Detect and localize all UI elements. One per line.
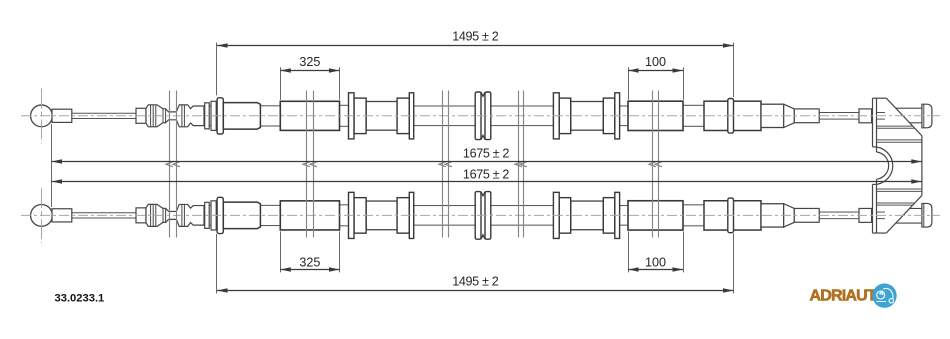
break line pair 2 [313, 91, 315, 238]
adjuster flange F1 [205, 103, 210, 129]
extension line 1495 top left [216, 43, 218, 96]
bracket upper shelf line 1 [877, 125, 913, 127]
pulley bottom groove notch [481, 135, 485, 139]
extension line 325 top left [280, 67, 282, 99]
ADRIAUTO logo blue disc [872, 283, 896, 307]
dimension line 100 bottom [628, 269, 683, 271]
dimension line 100 top [628, 70, 683, 72]
ball end fitting [31, 105, 53, 127]
svg-text:1495 ± 2: 1495 ± 2 [452, 274, 498, 288]
rod stub through bracket lower line [877, 118, 885, 120]
tube between sleeve S3 and sleeve S4 [683, 105, 704, 126]
svg-text:1675 ± 2: 1675 ± 2 [463, 146, 509, 160]
svg-text:ADRIAUT: ADRIAUT [810, 288, 877, 305]
wire inner cable upper line [72, 112, 136, 114]
bracket plate left inner edge (upper) [876, 98, 878, 152]
bracket lower half (mirrored) [873, 166, 932, 233]
spool P1 middle tube [366, 102, 397, 131]
dimension line 1675 first [52, 161, 922, 163]
rod stub through bracket upper line [877, 112, 885, 114]
break zigzag mark [515, 162, 522, 167]
bottom ball vertical centerline [41, 188, 43, 243]
break line pair 5 [652, 91, 654, 238]
boot ridge [181, 105, 183, 127]
tube between sleeve S1 and sleeve S2 [260, 106, 280, 126]
dimension line 1495 top [217, 45, 734, 47]
boot ferrule [136, 108, 146, 123]
extension line 1495 bottom left [216, 234, 218, 294]
break zigzag mark [310, 162, 317, 167]
cone tip cylinder [794, 109, 819, 123]
break zigzag mark [445, 162, 452, 167]
boot step [162, 109, 164, 123]
boot ridge [150, 105, 152, 127]
sleeve S2 (325 span) [280, 101, 339, 130]
svg-text:325: 325 [299, 55, 320, 69]
bracket hook notch outer arc [873, 147, 893, 185]
svg-text:100: 100 [645, 256, 666, 270]
bottom cable centerline [21, 214, 940, 216]
break line pair 4 [518, 91, 520, 238]
extension line 100 bottom right [683, 231, 685, 272]
dimension line 325 top [280, 70, 339, 72]
rubber bellows boot [146, 105, 204, 127]
spool P1 left flange [349, 93, 355, 139]
break line pair 3 [448, 91, 450, 238]
bottom cable assembly (mirror copy) [31, 192, 885, 240]
svg-text:33.0233.1: 33.0233.1 [55, 292, 105, 304]
extension line 100 top right [683, 67, 685, 99]
sleeve S3 (100 span) [628, 101, 683, 130]
boot ridge [183, 105, 185, 127]
bracket right edge (upper half) [921, 136, 923, 166]
pulley left flange [475, 92, 481, 140]
wire inner cable lower line [72, 118, 136, 120]
break zigzag mark [173, 162, 180, 167]
break line pair 2 [306, 91, 308, 238]
break zigzag mark [655, 162, 662, 167]
top stud shaft upper line [896, 107, 922, 109]
spool P1 right flange [409, 93, 413, 139]
break zigzag mark [520, 162, 527, 167]
dimension line 1675 second [52, 181, 922, 183]
ball neck cylinder [52, 109, 72, 122]
adjuster flange F2 [211, 101, 216, 130]
sleeve S1 [223, 103, 260, 130]
svg-text:100: 100 [645, 55, 666, 69]
boot ridge [155, 105, 157, 127]
thin rod to bracket fitting [819, 113, 859, 120]
bracket upper shelf line 2 [877, 127, 915, 129]
extension line 100 top left [628, 67, 630, 99]
pulley top groove notch [481, 92, 485, 96]
svg-text:1495 ± 2: 1495 ± 2 [452, 30, 498, 44]
break line pair 5 [658, 91, 660, 238]
bracket top edge [873, 97, 887, 99]
spool P1 right body [397, 98, 409, 134]
break line pair 4 [523, 91, 525, 238]
bracket hook notch inner arc [877, 152, 889, 179]
bracket upper fold line 2 [877, 141, 922, 143]
bracket top diagonal edge [886, 98, 922, 136]
tube between spool P2 and sleeve S3 [620, 106, 628, 126]
ADRIAUTO logo car icon [877, 288, 894, 303]
tube between spool P1 and pulley [414, 106, 475, 126]
tube between pulley and spool P2 [491, 106, 553, 126]
break zigzag mark [439, 162, 446, 167]
top stud head flange line [923, 104, 925, 128]
break zigzag mark [166, 162, 173, 167]
break line pair 1 [176, 91, 178, 238]
extension line 100 bottom left [628, 231, 630, 272]
break line pair 3 [442, 91, 444, 238]
spool P1 left body [354, 98, 366, 134]
top cable centerline [21, 115, 940, 117]
tube between sleeve S2 and spool P1 [340, 105, 349, 126]
extension line 1495 bottom right [733, 233, 735, 293]
top ball vertical centerline [41, 89, 43, 144]
adjuster flange F3 [217, 98, 223, 134]
extension line 1495 top right [733, 43, 735, 98]
break line pair 1 [169, 91, 171, 238]
top stud head [922, 104, 932, 128]
sleeve S4 end section [761, 104, 784, 127]
spool P2 middle tube [571, 102, 604, 131]
bracket-side end fitting [859, 109, 872, 123]
dimension line 325 bottom [280, 269, 339, 271]
bracket plate left outer edge (upper) [872, 98, 874, 147]
boot ridge [152, 105, 154, 127]
top stud shaft lower line [910, 122, 922, 124]
spool P2 right body [603, 98, 615, 134]
svg-text:1675 ± 2: 1675 ± 2 [463, 167, 509, 181]
spool P2 left flange [553, 93, 559, 139]
boot step [165, 109, 167, 123]
tube under adjuster flanges [204, 106, 224, 126]
break zigzag mark [649, 162, 656, 167]
svg-text:325: 325 [299, 256, 320, 270]
extension line 325 bottom right [339, 231, 341, 272]
extension line 325 bottom left [280, 231, 282, 272]
sleeve S4 [704, 101, 761, 130]
dimension line 1495 bottom [217, 290, 734, 292]
spool P2 right flange [615, 93, 620, 139]
spool P2 left body [559, 98, 571, 134]
end cone [784, 104, 795, 127]
pulley right flange [485, 92, 491, 140]
bracket upper fold line 1 [877, 139, 922, 141]
extension line 325 top right [339, 67, 341, 99]
extension line 1675 left [51, 124, 53, 207]
break zigzag mark [303, 162, 310, 167]
retaining clip on sleeve S4 [728, 99, 734, 134]
